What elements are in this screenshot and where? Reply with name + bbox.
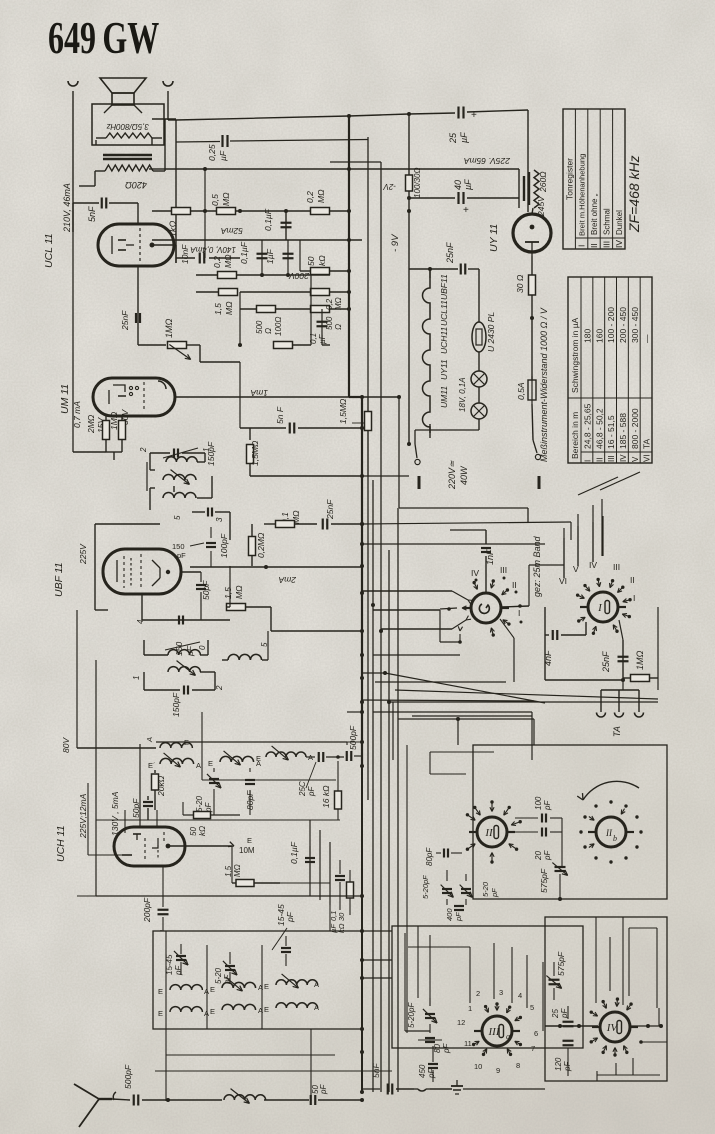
svg-text:10M: 10M xyxy=(239,846,255,855)
svg-text:150pF: 150pF xyxy=(206,441,216,466)
svg-text:24,8 - 25,65: 24,8 - 25,65 xyxy=(583,403,593,449)
svg-text:3: 3 xyxy=(499,988,503,997)
svg-text:b: b xyxy=(613,834,617,843)
svg-text:40W: 40W xyxy=(459,465,469,485)
svg-text:7: 7 xyxy=(531,1044,535,1053)
svg-text:4nF: 4nF xyxy=(543,650,553,666)
svg-text:1: 1 xyxy=(202,448,211,452)
svg-text:1: 1 xyxy=(132,676,141,680)
svg-text:A: A xyxy=(258,1006,263,1015)
svg-text:Breit ohne „: Breit ohne „ xyxy=(590,193,599,235)
svg-text:9: 9 xyxy=(496,1066,500,1075)
svg-text:5: 5 xyxy=(530,1003,534,1012)
svg-text:I: I xyxy=(584,460,593,462)
svg-text:500: 500 xyxy=(255,320,264,334)
svg-text:180: 180 xyxy=(583,329,593,343)
svg-text:VI: VI xyxy=(643,454,652,462)
svg-text:µF: µF xyxy=(459,132,469,143)
svg-text:Bereich in m: Bereich in m xyxy=(570,412,580,459)
svg-text:MΩ: MΩ xyxy=(221,192,231,206)
svg-text:Ω: Ω xyxy=(334,324,343,330)
svg-text:130V , 5mA: 130V , 5mA xyxy=(110,791,120,836)
svg-text:gez: 25m Band: gez: 25m Band xyxy=(532,535,542,597)
svg-text:16 kΩ: 16 kΩ xyxy=(321,785,331,808)
svg-text:pF: pF xyxy=(560,1008,569,1019)
svg-text:kΩ: kΩ xyxy=(317,255,327,266)
svg-text:A: A xyxy=(145,737,154,743)
svg-text:UCL11: UCL11 xyxy=(439,300,449,326)
svg-text:0,2: 0,2 xyxy=(325,298,334,310)
svg-text:220V≃: 220V≃ xyxy=(447,460,457,490)
svg-text:25C: 25C xyxy=(298,781,307,797)
svg-text:11: 11 xyxy=(464,1039,472,1048)
svg-text:E: E xyxy=(158,987,163,996)
svg-text:25nF: 25nF xyxy=(601,651,611,673)
svg-text:300 - 450: 300 - 450 xyxy=(630,307,640,343)
svg-text:25nF: 25nF xyxy=(120,310,130,331)
svg-text:649 GW: 649 GW xyxy=(48,14,159,64)
svg-text:pF: pF xyxy=(454,912,463,922)
svg-text:25: 25 xyxy=(551,1009,560,1019)
svg-text:A: A xyxy=(258,983,263,992)
svg-text:400: 400 xyxy=(445,908,454,921)
svg-text:260Ω: 260Ω xyxy=(538,171,548,193)
svg-text:2: 2 xyxy=(215,685,224,691)
svg-text:800 - 2000: 800 - 2000 xyxy=(630,408,640,449)
svg-text:Meßinstrument-Widerstand 1000: Meßinstrument-Widerstand 1000 Ω / V xyxy=(539,307,549,462)
svg-text:3,5Ω/800Hz: 3,5Ω/800Hz xyxy=(106,122,149,131)
svg-text:E: E xyxy=(264,982,269,991)
svg-text:MΩ: MΩ xyxy=(233,864,242,877)
svg-text:Schwingstrom in µA: Schwingstrom in µA xyxy=(570,317,580,393)
svg-text:5n F: 5n F xyxy=(275,406,285,424)
svg-text:E: E xyxy=(247,836,252,845)
svg-text:II: II xyxy=(605,828,613,838)
svg-text:5-20: 5-20 xyxy=(481,881,490,897)
svg-text:80: 80 xyxy=(433,1044,442,1053)
svg-text:I: I xyxy=(518,608,520,618)
svg-text:pF: pF xyxy=(285,911,295,923)
svg-text:16 - 51,5: 16 - 51,5 xyxy=(606,415,616,449)
svg-text:52mA: 52mA xyxy=(220,226,243,236)
svg-text:575pF: 575pF xyxy=(539,868,549,893)
svg-text:18V, 0,1A: 18V, 0,1A xyxy=(458,377,467,412)
svg-text:pF: pF xyxy=(543,850,552,861)
svg-text:6: 6 xyxy=(534,1029,538,1038)
svg-text:1,5MΩ: 1,5MΩ xyxy=(338,398,348,424)
svg-text:0,1µF: 0,1µF xyxy=(239,241,249,264)
svg-text:0: 0 xyxy=(198,645,207,650)
svg-text:100Ω: 100Ω xyxy=(274,317,283,336)
svg-text:80pF: 80pF xyxy=(245,790,255,810)
svg-text:I: I xyxy=(633,593,635,603)
svg-text:150pF: 150pF xyxy=(171,692,181,717)
svg-text:0,1: 0,1 xyxy=(309,333,318,344)
svg-text:0,2: 0,2 xyxy=(305,191,315,203)
svg-text:0,5: 0,5 xyxy=(210,194,220,206)
svg-text:Breit m.Höhenanhebung: Breit m.Höhenanhebung xyxy=(578,154,587,236)
svg-text:10: 10 xyxy=(474,1062,482,1071)
svg-text:III: III xyxy=(613,562,620,572)
svg-text:pF: pF xyxy=(307,786,316,797)
svg-text:pF: pF xyxy=(174,965,183,976)
svg-text:TA: TA xyxy=(642,438,652,449)
svg-text:200V: 200V xyxy=(288,271,310,281)
svg-text:20: 20 xyxy=(534,851,543,861)
svg-text:500pF: 500pF xyxy=(348,725,358,750)
svg-text:5-20pF: 5-20pF xyxy=(407,1002,416,1028)
svg-text:UBF11: UBF11 xyxy=(439,274,449,300)
svg-text:UY11: UY11 xyxy=(439,359,449,380)
svg-text:210V, 46mA: 210V, 46mA xyxy=(62,183,72,233)
svg-text:185 - 588: 185 - 588 xyxy=(618,413,628,449)
svg-text:+: + xyxy=(463,205,469,216)
svg-text:40: 40 xyxy=(453,180,463,190)
svg-text:TA: TA xyxy=(612,726,622,737)
svg-text:A: A xyxy=(314,980,319,989)
svg-text:pF: pF xyxy=(563,1061,572,1072)
svg-text:15-45: 15-45 xyxy=(165,954,174,975)
svg-text:µF: µF xyxy=(318,333,327,344)
svg-text:pF: pF xyxy=(442,1043,451,1054)
svg-text:2mA: 2mA xyxy=(278,575,297,585)
svg-text:UCL 11: UCL 11 xyxy=(43,233,55,268)
svg-text:pF: pF xyxy=(427,1068,436,1079)
svg-text:1,5MΩ: 1,5MΩ xyxy=(250,440,260,466)
svg-text:E: E xyxy=(158,1009,163,1018)
svg-text:II: II xyxy=(512,580,517,590)
svg-text:UCH 11: UCH 11 xyxy=(55,825,67,862)
svg-text:UBF 11: UBF 11 xyxy=(53,562,65,597)
svg-text:100pF: 100pF xyxy=(219,533,229,558)
svg-text:pF: pF xyxy=(490,888,499,898)
svg-text:225V;12mA: 225V;12mA xyxy=(78,793,88,839)
svg-text:100: 100 xyxy=(534,796,543,810)
svg-text:10nF: 10nF xyxy=(180,244,190,264)
svg-text:0,1µF: 0,1µF xyxy=(289,841,299,864)
svg-text:ZF=468 kHz: ZF=468 kHz xyxy=(626,155,642,233)
svg-text:0,2: 0,2 xyxy=(212,256,222,268)
svg-text:E: E xyxy=(264,1005,269,1014)
svg-text:0,5A: 0,5A xyxy=(516,382,526,400)
svg-text:E: E xyxy=(210,1007,215,1016)
svg-text:IV: IV xyxy=(471,568,479,578)
svg-text:50: 50 xyxy=(189,827,198,836)
svg-text:2: 2 xyxy=(476,989,480,998)
svg-text:UM 11: UM 11 xyxy=(59,384,71,414)
svg-text:30: 30 xyxy=(337,912,346,921)
svg-text:UM11: UM11 xyxy=(439,386,449,408)
svg-text:50: 50 xyxy=(306,256,316,266)
svg-text:2MΩ: 2MΩ xyxy=(86,414,96,434)
svg-text:—: — xyxy=(642,334,652,343)
svg-text:420Ω: 420Ω xyxy=(125,180,147,190)
svg-text:III: III xyxy=(500,565,507,575)
svg-text:pF: pF xyxy=(543,800,552,811)
svg-text:0,25: 0,25 xyxy=(207,144,217,161)
svg-text:A: A xyxy=(196,761,201,770)
svg-text:5: 5 xyxy=(173,515,182,520)
svg-text:225V. 65mA: 225V. 65mA xyxy=(464,156,511,166)
svg-text:5-20pF: 5-20pF xyxy=(421,875,430,899)
svg-text:pF: pF xyxy=(185,645,195,657)
svg-text:Schmal: Schmal xyxy=(603,208,612,235)
svg-text:II: II xyxy=(484,827,494,839)
svg-text:µF: µF xyxy=(218,150,228,161)
svg-text:20kΩ: 20kΩ xyxy=(156,775,166,797)
svg-text:a: a xyxy=(506,1032,510,1041)
svg-text:IV: IV xyxy=(619,454,628,462)
svg-text:500: 500 xyxy=(325,316,334,330)
svg-text:25nF: 25nF xyxy=(445,242,455,264)
svg-text:II: II xyxy=(630,575,635,585)
svg-text:575pF: 575pF xyxy=(556,951,566,976)
svg-text:12: 12 xyxy=(457,1018,465,1027)
svg-text:V: V xyxy=(631,456,640,462)
svg-text:E: E xyxy=(256,754,261,763)
svg-text:225V: 225V xyxy=(78,543,88,565)
svg-text:1mA: 1mA xyxy=(250,388,268,398)
svg-text:80V: 80V xyxy=(61,737,71,753)
svg-text:UCH11: UCH11 xyxy=(439,326,449,354)
svg-text:1MΩ: 1MΩ xyxy=(164,318,174,338)
svg-text:140V, 0,4mA: 140V, 0,4mA xyxy=(190,245,236,254)
svg-text:MΩ: MΩ xyxy=(316,189,326,203)
svg-text:-2V: -2V xyxy=(383,182,396,191)
svg-text:2: 2 xyxy=(139,447,148,453)
svg-text:1kΩ: 1kΩ xyxy=(168,220,178,237)
svg-text:160: 160 xyxy=(594,329,604,343)
svg-text:pF: pF xyxy=(204,802,213,813)
svg-text:- 9V: - 9V xyxy=(390,233,401,252)
svg-text:MΩ: MΩ xyxy=(224,301,234,315)
svg-text:+: + xyxy=(471,110,477,121)
svg-text:200pF: 200pF xyxy=(142,897,152,923)
svg-text:IV: IV xyxy=(614,240,624,248)
svg-text:450: 450 xyxy=(418,1064,427,1078)
svg-text:46,8 - 50,2: 46,8 - 50,2 xyxy=(594,408,604,449)
svg-text:3: 3 xyxy=(215,517,224,522)
svg-text:1MΩ: 1MΩ xyxy=(109,411,119,430)
svg-text:100 - 200: 100 - 200 xyxy=(606,307,616,343)
svg-text:1,5: 1,5 xyxy=(223,587,233,599)
svg-text:25: 25 xyxy=(448,132,458,144)
svg-text:MΩ: MΩ xyxy=(223,254,233,268)
svg-text:0,2MΩ: 0,2MΩ xyxy=(256,532,266,558)
svg-text:III: III xyxy=(607,455,616,462)
svg-text:5nF: 5nF xyxy=(87,206,97,222)
svg-text:30 Ω: 30 Ω xyxy=(515,274,525,293)
svg-text:100/30Ω: 100/30Ω xyxy=(413,167,422,198)
svg-text:II: II xyxy=(595,458,604,462)
svg-text:5nF: 5nF xyxy=(371,1063,381,1078)
svg-text:1MΩ: 1MΩ xyxy=(635,650,645,670)
svg-text:1µF: 1µF xyxy=(265,248,275,264)
svg-text:25nF: 25nF xyxy=(325,499,335,520)
svg-text:8: 8 xyxy=(516,1061,520,1070)
svg-text:µF: µF xyxy=(463,179,473,190)
svg-text:5-20: 5-20 xyxy=(195,795,204,812)
svg-text:80pF: 80pF xyxy=(425,847,434,866)
svg-text:4: 4 xyxy=(518,991,522,1000)
svg-text:A: A xyxy=(204,1009,209,1018)
svg-text:UY 11: UY 11 xyxy=(488,224,500,252)
svg-text:E: E xyxy=(208,759,213,768)
svg-text:MΩ: MΩ xyxy=(334,297,343,310)
svg-text:Tonregister: Tonregister xyxy=(565,158,575,200)
svg-text:1nF: 1nF xyxy=(485,549,495,565)
svg-text:200 - 450: 200 - 450 xyxy=(618,307,628,343)
svg-text:A: A xyxy=(314,1003,319,1012)
svg-text:I: I xyxy=(577,245,587,247)
svg-text:VI: VI xyxy=(559,576,567,586)
svg-text:E: E xyxy=(210,985,215,994)
svg-text:1,5: 1,5 xyxy=(213,303,223,315)
svg-text:U 2430 PL: U 2430 PL xyxy=(486,312,496,352)
svg-text:5-20: 5-20 xyxy=(214,967,223,984)
svg-text:1: 1 xyxy=(468,1004,472,1013)
svg-text:pF: pF xyxy=(319,1084,328,1095)
svg-text:4: 4 xyxy=(136,619,145,624)
svg-text:A: A xyxy=(204,987,209,996)
svg-text:120: 120 xyxy=(554,1057,563,1071)
svg-text:III: III xyxy=(602,241,612,248)
svg-text:MΩ: MΩ xyxy=(234,585,244,599)
svg-text:II: II xyxy=(589,243,599,248)
svg-text:Dunkel: Dunkel xyxy=(615,210,624,235)
svg-text:kΩ: kΩ xyxy=(198,826,207,836)
svg-text:0,1µF: 0,1µF xyxy=(263,208,273,231)
svg-text:500pF: 500pF xyxy=(123,1064,133,1089)
svg-text:Ω: Ω xyxy=(264,328,273,334)
svg-text:E´: E´ xyxy=(148,761,156,770)
svg-text:150: 150 xyxy=(172,542,185,551)
